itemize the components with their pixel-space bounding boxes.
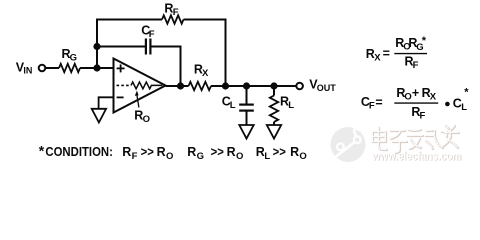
svg-text:R: R — [227, 145, 236, 159]
svg-text:R: R — [157, 145, 166, 159]
label VIN — [16, 60, 33, 75]
label RG — [62, 47, 77, 64]
wire CF branch left — [97, 46, 146, 48]
svg-text:+: + — [412, 86, 419, 100]
wire top feedback left — [96, 19, 162, 21]
svg-text:OUT: OUT — [317, 83, 337, 93]
label VOUT — [309, 78, 336, 93]
node VIN terminal — [39, 65, 46, 72]
svg-text:O: O — [236, 151, 243, 162]
wire RX to VOUT — [211, 85, 296, 87]
svg-text:F: F — [420, 111, 426, 122]
svg-text:www.elecfans.com: www.elecfans.com — [371, 149, 461, 163]
wire feedback vertical left — [96, 20, 98, 69]
svg-text:L: L — [461, 102, 467, 113]
watermark url www.elecfans.com — [371, 149, 462, 164]
svg-text:=: = — [375, 95, 382, 109]
label CF — [141, 24, 155, 41]
node A junction input — [93, 64, 100, 71]
svg-text:=: = — [383, 46, 390, 60]
op-amp U1 — [114, 59, 166, 113]
capacitor CL — [239, 105, 254, 111]
node CL junction — [243, 82, 250, 89]
svg-text:R: R — [187, 145, 196, 159]
svg-text:F: F — [413, 60, 419, 71]
watermark chinese text 电子发烧友 (approximated strokes) — [373, 126, 459, 153]
svg-text:X: X — [430, 92, 437, 103]
label RX — [194, 62, 209, 79]
label RO with arrow — [134, 91, 150, 125]
svg-text:*: * — [39, 143, 45, 159]
wire op-amp output — [166, 85, 189, 87]
svg-text:>>: >> — [211, 145, 224, 159]
svg-text:L: L — [264, 151, 270, 162]
resistor RL — [270, 96, 278, 122]
svg-text:X: X — [202, 68, 209, 79]
wire VIN to RG — [46, 67, 60, 69]
svg-text:F: F — [149, 29, 155, 40]
svg-text:G: G — [197, 151, 204, 162]
ground op-amp — [92, 109, 106, 123]
equation RX formula — [366, 35, 427, 71]
svg-text:O: O — [166, 151, 173, 162]
svg-text:F: F — [132, 151, 138, 162]
wire CF branch right — [151, 47, 181, 87]
capacitor CF — [146, 39, 151, 55]
label RL — [280, 95, 294, 112]
resistor RF — [162, 15, 183, 23]
label RF — [164, 1, 178, 18]
node CF tap — [93, 43, 100, 50]
svg-text:>>: >> — [273, 145, 286, 159]
svg-text:L: L — [288, 100, 294, 111]
wire top feedback right — [184, 20, 226, 87]
svg-text:O: O — [143, 114, 150, 125]
svg-text:*: * — [464, 87, 469, 99]
svg-text:L: L — [230, 100, 236, 111]
wire RL to ground — [273, 122, 275, 125]
ground CL — [239, 125, 253, 139]
svg-text:R: R — [122, 145, 131, 159]
wire RG to op-amp input — [80, 67, 114, 69]
svg-text:G: G — [70, 52, 77, 63]
watermark logo circle — [331, 121, 366, 162]
svg-text:*: * — [422, 35, 427, 47]
wire dashed internal — [117, 84, 132, 86]
wire CL to ground — [246, 111, 248, 125]
label CL — [222, 95, 236, 112]
resistor RX — [189, 82, 211, 90]
svg-text:IN: IN — [23, 66, 32, 76]
svg-text:X: X — [374, 52, 381, 63]
node RF junction — [222, 82, 229, 89]
svg-text:CONDITION:: CONDITION: — [45, 145, 113, 159]
node VOUT terminal — [296, 83, 303, 90]
svg-text:R: R — [290, 145, 299, 159]
wire RL branch — [273, 86, 275, 96]
svg-text:F: F — [369, 101, 375, 112]
ground RL — [267, 125, 281, 139]
equation CF formula — [361, 86, 469, 122]
resistor RG — [59, 64, 80, 72]
wire CL branch — [246, 86, 248, 104]
wire minus input to ground — [99, 97, 114, 109]
node RL junction — [270, 82, 277, 89]
svg-text:O: O — [404, 92, 411, 103]
node output junction — [177, 82, 184, 89]
svg-text:>>: >> — [141, 145, 154, 159]
resistor RO internal — [131, 82, 162, 89]
condition note — [39, 143, 307, 162]
svg-text:O: O — [299, 151, 306, 162]
svg-text:F: F — [173, 7, 179, 18]
